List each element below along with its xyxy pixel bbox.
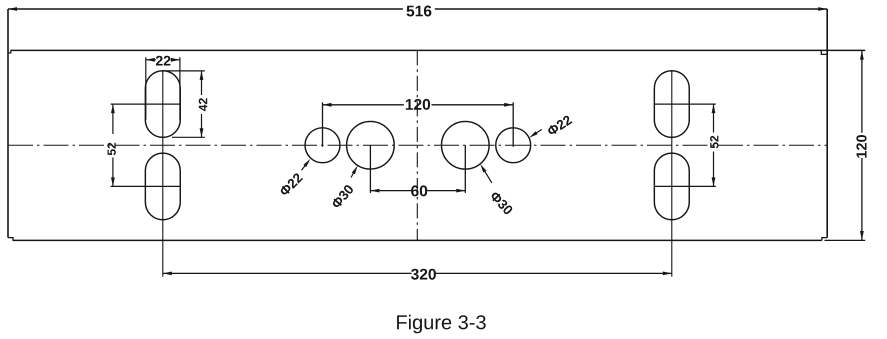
label 52 right [710,136,719,149]
label phi22 left [279,172,303,196]
dimension 52 right line [654,104,716,186]
dimension 22 line [146,57,180,119]
left slots vertical centerline [162,71,164,277]
dimension 60 line [370,145,465,193]
hole phi30 right [442,121,490,169]
plate bottom edge [13,239,822,241]
label 60 [411,185,427,196]
label 52 left [107,143,116,156]
plate top-right corner notch [821,50,827,54]
label 22 [156,56,171,66]
plate top-left corner notch [8,50,11,53]
leader phi30 right [480,164,492,183]
label phi22 right [546,115,572,137]
caption Figure 3-3 [397,315,486,334]
hole phi30 left [347,121,395,169]
label phi30 left [331,184,354,209]
vertical centerline [416,50,418,240]
slot lower-right [654,153,689,220]
label 120 top [406,99,430,110]
plate bottom-left corner step [8,238,13,241]
label 42 [199,98,208,111]
slot lower-left [145,153,180,220]
leader phi30 left [351,166,358,178]
dimension 120 top line [323,102,514,147]
dimension 42 line [164,71,205,137]
label 320 [411,269,436,280]
plate bottom edge right extension [825,239,866,241]
plate left edge [7,9,9,238]
hole phi22 left [305,128,340,163]
plate right edge [826,9,828,238]
dimension 516 line [8,7,827,11]
hole phi22 right [496,128,531,163]
leader phi22 right [529,129,542,137]
label phi30 right [489,191,513,216]
leader phi22 left [302,159,311,170]
plate top edge [11,49,865,51]
label 120 right [856,135,866,158]
slot upper-left [145,71,180,138]
label 516 [407,6,432,17]
right slots vertical centerline [671,71,673,277]
dimension 52 left line [111,104,181,186]
horizontal centerline [8,144,827,146]
slot upper-right [654,71,689,138]
plate bottom-right corner step [822,238,827,241]
dimension 120 right line [860,51,864,240]
dimension 320 line [163,272,672,276]
